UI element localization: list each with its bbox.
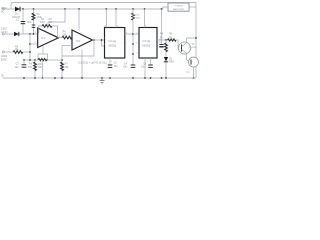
svg-text:IC2: IC2 [76, 40, 81, 43]
svg-text:1: 1 [147, 61, 148, 63]
wire C6 branch [161, 9, 163, 44]
wire box left [163, 7, 168, 9]
svg-text:6: 6 [59, 36, 60, 38]
svg-text:AC: AC [1, 10, 5, 13]
node dot rail x146 [144, 8, 146, 10]
node dot x24 y60 [23, 59, 25, 61]
node dot pin stub [101, 39, 103, 41]
node dot zener bottom [33, 33, 35, 35]
wire IC3a bottom pin [109, 58, 111, 65]
svg-text:5528: 5528 [1, 58, 7, 61]
svg-text:NE556: NE556 [109, 45, 117, 48]
svg-text:6: 6 [94, 38, 95, 40]
svg-text:10n: 10n [123, 66, 128, 69]
node dot collector rail [195, 37, 197, 39]
wire LED branch [165, 40, 167, 78]
svg-text:1: 1 [111, 61, 112, 63]
node dot x30 y44 [29, 43, 31, 45]
wire box right [189, 6, 196, 8]
node dot rail x159 [161, 8, 163, 10]
wire IC3a top pin 4 [115, 9, 117, 28]
node dot rail x109 [105, 8, 107, 10]
svg-text:10n: 10n [114, 65, 119, 68]
wire R7 branch [61, 46, 63, 79]
svg-text:7: 7 [45, 31, 46, 33]
wire VR row left [24, 59, 38, 61]
resistor R1 [32, 13, 35, 20]
wire to base [176, 40, 181, 48]
IC3a box [105, 28, 125, 59]
svg-text:2: 2 [35, 42, 36, 44]
wire LDR row [4, 51, 13, 53]
svg-text:0V: 0V [1, 74, 4, 77]
wire op1 output [58, 37, 62, 39]
node dot x30 y60 [29, 59, 31, 61]
svg-text:6: 6 [137, 43, 138, 45]
wire lower input [4, 33, 37, 35]
svg-text:IC3 (a): IC3 (a) [109, 40, 117, 43]
LED D3 [164, 57, 168, 62]
op-amp IC1 [38, 28, 59, 48]
svg-text:IC3 (b): IC3 (b) [143, 40, 151, 43]
wire IC3b bottom pin 5 [150, 58, 152, 65]
wire right side [195, 3, 197, 79]
node dots ground rail [23, 77, 167, 79]
wire IC3a right stubs [125, 33, 133, 35]
op-amp IC2 [72, 30, 93, 50]
svg-text:7: 7 [126, 43, 127, 45]
svg-text:3: 3 [126, 33, 127, 35]
wire LDR row right [23, 51, 30, 53]
diode D2 [14, 32, 19, 36]
svg-text:AC IN: AC IN [1, 31, 8, 34]
svg-text:4: 4 [117, 26, 118, 28]
wire op1 pin down [42, 46, 44, 54]
resistor R5 [13, 51, 23, 54]
resistor R9 [168, 39, 177, 41]
svg-text:6: 6 [104, 44, 105, 46]
wire top bypass [11, 2, 196, 4]
wire left bus down [29, 34, 31, 60]
wire C2 branch [23, 60, 25, 65]
svg-text:3: 3 [69, 36, 70, 38]
node dot bus y54 [132, 53, 134, 55]
wire op2 lower input [62, 45, 72, 47]
wire IC3b output [157, 39, 174, 41]
svg-text:10n: 10n [141, 66, 146, 69]
node dot VR1 gnd [42, 77, 44, 79]
wire op1 V+ [48, 9, 65, 29]
wire IC3b bottom pin 1 [144, 58, 146, 78]
capacitor C5 [148, 65, 153, 67]
svg-text:IC1: IC1 [41, 37, 46, 40]
node dot rail x65 [64, 8, 66, 10]
wire ground rail [3, 77, 197, 79]
node dot ground attach [101, 77, 103, 79]
node dot bus y44 [132, 43, 134, 45]
wire top rail [4, 8, 163, 10]
load box top right [168, 3, 189, 11]
node dot rail x117 [115, 8, 117, 10]
resistor R10 on bus [132, 13, 135, 20]
node dot rail x79 [78, 8, 80, 10]
node dot rail x33 [33, 8, 35, 10]
preset VR1 element [38, 58, 48, 60]
transistor T1 symbol [182, 43, 187, 53]
wire op2 output [93, 39, 105, 41]
wire feedback left [39, 26, 42, 33]
wire zener branch [33, 9, 35, 34]
node LDR terminal [2, 51, 4, 53]
wire bus between ICs [132, 9, 134, 65]
wire cap C1 branch [22, 9, 24, 34]
svg-text:RED: RED [169, 61, 174, 64]
svg-text:BC548: BC548 [190, 47, 197, 49]
wire IC3a top pin 8 [105, 9, 107, 28]
transistor T1 circle [179, 42, 191, 54]
capacitor C6 [159, 45, 163, 47]
wire op2 feedback [62, 40, 94, 56]
wire IC3b top pin [144, 9, 146, 28]
wire emitter [187, 53, 190, 61]
diode D1 [15, 7, 20, 12]
svg-text:10u: 10u [15, 66, 20, 69]
wire input stub up [10, 3, 12, 10]
resistor R8 [165, 43, 168, 52]
resistor R6 [34, 62, 37, 71]
wire VR row right [48, 59, 63, 61]
svg-text:POWER: POWER [175, 6, 183, 8]
wire op2 V+ [78, 9, 80, 31]
buzzer PZ1 circle [189, 57, 199, 67]
svg-text:7: 7 [81, 33, 82, 35]
resistor R4 [62, 36, 72, 39]
node dot buzzer gnd [193, 77, 195, 79]
pin numbers [35, 26, 161, 64]
resistor R2 [42, 25, 52, 28]
node dot x35 y60 [34, 59, 36, 61]
svg-text:1M: 1M [49, 21, 52, 24]
capacitor C4 [131, 65, 136, 67]
svg-text:5: 5 [137, 53, 138, 55]
node dot rail x23 [22, 8, 24, 10]
svg-text:3: 3 [35, 32, 36, 34]
svg-text:2: 2 [104, 38, 105, 40]
resistor R7 [61, 62, 64, 71]
wire IC3b left stubs [133, 33, 139, 35]
wire op1 inverting stub [30, 43, 38, 45]
zener ZD1 [32, 25, 36, 27]
svg-text:AMPLIFIER: AMPLIFIER [173, 8, 184, 11]
node dot rail x133 [132, 8, 134, 10]
preset VR1 box [38, 54, 48, 60]
svg-text:8: 8 [105, 26, 106, 28]
wire feedback right [52, 26, 58, 38]
capacitor C3 [108, 65, 113, 67]
wire pin6 stub [102, 40, 105, 46]
svg-text:IC1 (IC2) = µA741 (8-DIL): IC1 (IC2) = µA741 (8-DIL) [78, 61, 107, 64]
svg-text:NE556: NE556 [143, 45, 151, 48]
svg-text:100n: 100n [27, 21, 33, 24]
node dot input x30 [29, 33, 31, 35]
svg-text:3: 3 [160, 38, 161, 40]
node N terminal [2, 33, 4, 35]
wire buzzer down [193, 67, 195, 78]
svg-text:2: 2 [137, 33, 138, 35]
wire op2 gnd pin [81, 50, 83, 78]
node dot bus y34 [132, 33, 134, 35]
node dot x62 y60 [61, 59, 63, 61]
wire VR1 down [42, 60, 44, 78]
svg-text:470: 470 [28, 66, 33, 69]
svg-text:10M: 10M [40, 21, 45, 24]
wire collector [187, 38, 197, 43]
capacitor C1 [21, 22, 26, 24]
ground symbol [100, 78, 105, 84]
buzzer PZ1 detail [190, 60, 192, 65]
svg-text:4: 4 [145, 26, 146, 28]
node dot x166 y40 [165, 39, 167, 41]
IC3b box [139, 28, 157, 59]
node L terminal [2, 8, 4, 10]
node dot feedback [93, 39, 95, 41]
node dot x30 y52 [29, 51, 31, 53]
wire to op2 input [72, 37, 74, 39]
capacitor C2 [22, 65, 27, 67]
wire R6 branch [34, 60, 36, 78]
